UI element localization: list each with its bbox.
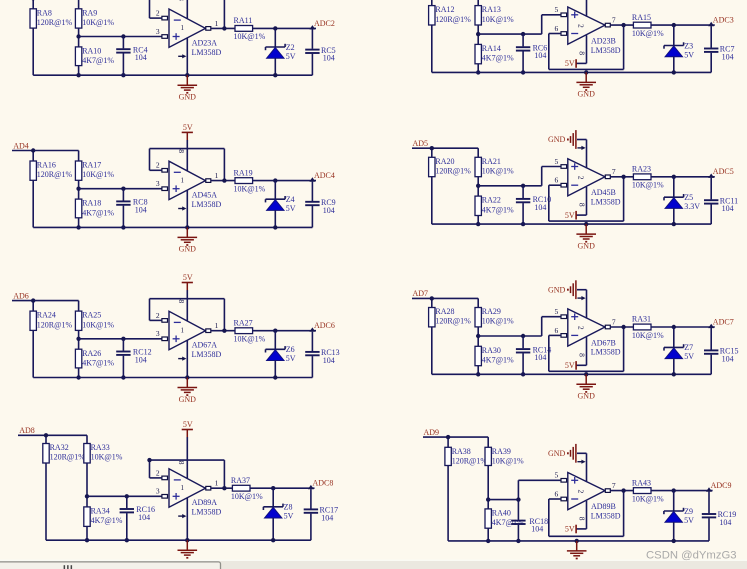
svg-text:5: 5: [555, 471, 559, 480]
wire feedback loop: [549, 177, 624, 221]
capacitor RC15 104: [704, 328, 738, 374]
svg-text:10K@1%: 10K@1%: [234, 32, 266, 41]
ground: [178, 378, 198, 404]
pin 3: [156, 487, 168, 498]
wire feedback loop: [150, 149, 225, 181]
svg-text:1: 1: [181, 327, 185, 335]
wire: [76, 218, 80, 230]
capacitor RC7 104: [704, 26, 734, 72]
svg-text:10K@1%: 10K@1%: [82, 170, 114, 179]
svg-text:Z6: Z6: [286, 345, 295, 354]
watermark: [646, 549, 737, 561]
svg-text:10K@1%: 10K@1%: [234, 184, 266, 193]
resistor RA43 10K: [632, 478, 664, 503]
wire input net: [412, 146, 478, 157]
resistor RA18 4K7: [75, 199, 114, 218]
svg-text:RA21: RA21: [482, 157, 501, 166]
svg-text:5V: 5V: [565, 59, 575, 68]
svg-text:10K@1%: 10K@1%: [482, 15, 514, 24]
resistor RA16 120R: [30, 161, 73, 181]
svg-text:RA33: RA33: [91, 443, 110, 452]
svg-text:2: 2: [156, 311, 160, 320]
ground: [178, 540, 198, 558]
wire: [250, 486, 315, 490]
svg-text:RA8: RA8: [37, 8, 52, 17]
svg-text:104: 104: [722, 53, 734, 62]
svg-text:ADC9: ADC9: [711, 481, 732, 490]
pin 5: [555, 157, 567, 168]
wire gnd rail: [33, 226, 312, 228]
svg-text:7: 7: [612, 16, 616, 25]
svg-text:RA20: RA20: [435, 157, 454, 166]
svg-text:Z3: Z3: [684, 41, 693, 50]
capacitor RC8 104: [116, 189, 147, 230]
power 5V + pin 8: [565, 35, 587, 68]
pin 7 output: [605, 481, 616, 492]
pin 3: [156, 329, 168, 340]
svg-text:5V: 5V: [565, 211, 575, 220]
wire: [32, 180, 34, 227]
svg-text:GND: GND: [548, 285, 566, 294]
svg-text:Z2: Z2: [286, 43, 295, 52]
svg-text:10K@1%: 10K@1%: [632, 29, 664, 38]
pin 2: [156, 311, 168, 322]
wire output: [610, 488, 633, 492]
svg-text:5V: 5V: [183, 420, 193, 429]
ground: [576, 374, 596, 400]
pin 4 wire + hidden-pin arrow: [178, 498, 189, 543]
zener Z6: [266, 331, 296, 380]
wire divider node: [76, 330, 162, 349]
svg-text:104: 104: [534, 51, 546, 60]
wire output: [211, 178, 235, 182]
resistor RA33 10K: [84, 443, 123, 463]
wire: [447, 466, 449, 541]
svg-text:120R@1%: 120R@1%: [37, 18, 73, 27]
pin 2: [156, 9, 168, 20]
svg-text:5V: 5V: [286, 52, 296, 61]
svg-text:ADC4: ADC4: [314, 171, 335, 180]
resistor RA29 10K: [475, 307, 514, 327]
svg-text:5V: 5V: [684, 516, 694, 525]
svg-text:Z7: Z7: [684, 343, 693, 352]
pin 6: [555, 326, 567, 337]
svg-text:10K@1%: 10K@1%: [482, 167, 514, 176]
power 5V: [182, 420, 193, 438]
svg-text:RA38: RA38: [452, 447, 471, 456]
pin 2: [156, 161, 168, 172]
wire: [651, 488, 713, 492]
wire input net: [18, 433, 87, 443]
resistor RA26 4K7: [75, 349, 114, 368]
node AD4: [13, 141, 29, 150]
capacitor RC5 104: [305, 29, 335, 75]
ground (top): [548, 0, 587, 17]
svg-text:GND: GND: [578, 241, 596, 250]
resistor RA32 120R: [43, 443, 86, 463]
wire divider node: [476, 15, 562, 45]
wire: [32, 28, 34, 75]
wire pin 8 supply: [177, 437, 187, 478]
svg-text:RA14: RA14: [482, 44, 501, 53]
svg-text:8: 8: [578, 517, 587, 521]
wire: [651, 325, 715, 329]
svg-text:AD5: AD5: [413, 139, 429, 148]
svg-text:ADC8: ADC8: [313, 479, 334, 488]
svg-text:RA40: RA40: [492, 509, 511, 518]
svg-text:RA19: RA19: [234, 168, 253, 177]
wire gnd rail: [432, 373, 711, 375]
pin 7 output: [605, 317, 616, 328]
wire: [651, 23, 715, 27]
svg-text:5V: 5V: [284, 512, 294, 521]
pin 6: [555, 24, 567, 35]
wire output: [610, 23, 633, 27]
capacitor RC6 104: [516, 34, 547, 75]
op-amp AD45B LM358D: [568, 159, 621, 207]
resistor RA40 4K7: [485, 509, 524, 529]
pin 3: [156, 179, 168, 190]
svg-text:1: 1: [181, 176, 185, 184]
zener Z9: [664, 491, 694, 544]
svg-text:LM358D: LM358D: [591, 46, 621, 55]
resistor RA28 120R: [429, 307, 472, 327]
svg-text:RA34: RA34: [91, 507, 110, 516]
svg-text:4K7@1%: 4K7@1%: [82, 208, 114, 217]
ground (top): [548, 280, 587, 318]
resistor RA34 4K7: [84, 507, 123, 527]
svg-text:104: 104: [722, 354, 734, 363]
ground: [576, 224, 596, 250]
node ADC6: [309, 321, 334, 332]
power 5V + pin 8: [565, 337, 587, 370]
resistor RA8 120R: [30, 8, 73, 28]
svg-text:5: 5: [555, 5, 559, 14]
svg-text:RA29: RA29: [482, 307, 501, 316]
wire: [76, 66, 80, 78]
ground: [178, 75, 198, 101]
svg-text:LM358D: LM358D: [192, 200, 222, 209]
wire output: [610, 175, 633, 179]
svg-text:Z5: Z5: [684, 193, 693, 202]
capacitor RC12 104: [116, 339, 151, 380]
resistor RA31 10K: [632, 315, 664, 340]
pin 4 wire + hidden-pin arrow: [178, 190, 189, 229]
zener Z4: [266, 181, 296, 230]
pin 6: [555, 176, 567, 187]
svg-text:1: 1: [215, 479, 219, 488]
svg-text:RA37: RA37: [231, 476, 250, 485]
svg-text:10K@1%: 10K@1%: [632, 331, 664, 340]
zener Z8: [263, 488, 293, 542]
pin 4 wire + hidden-pin arrow: [178, 340, 189, 379]
wire divider node: [486, 466, 562, 509]
resistor RA24 120R: [30, 311, 73, 331]
node ADC9: [706, 481, 731, 492]
wire gnd rail: [432, 71, 711, 73]
op-amp AD67A LM358D: [169, 311, 222, 359]
svg-text:2: 2: [576, 176, 585, 180]
svg-text:Z8: Z8: [284, 503, 293, 512]
svg-text:104: 104: [135, 205, 147, 214]
wire feedback loop: [150, 299, 225, 331]
node AD6: [13, 291, 29, 300]
node ADC8: [308, 479, 333, 490]
svg-text:AD23B: AD23B: [591, 37, 616, 46]
power 5V: [182, 123, 193, 141]
svg-text:LM358D: LM358D: [192, 48, 222, 57]
resistor RA9 10K: [75, 8, 114, 28]
capacitor RC11 104: [704, 178, 738, 224]
svg-text:104: 104: [135, 356, 147, 365]
wire feedback loop: [549, 491, 624, 537]
svg-text:8: 8: [177, 149, 186, 153]
svg-text:AD67A: AD67A: [192, 341, 218, 350]
zener Z2: [266, 28, 296, 77]
resistor RA22 4K7: [475, 196, 514, 216]
svg-text:104: 104: [323, 356, 335, 365]
resistor RA37 10K: [231, 476, 263, 501]
capacitor RC17 104: [304, 489, 338, 540]
resistor RA13 10K: [475, 5, 514, 25]
svg-text:3: 3: [156, 27, 160, 36]
svg-text:RA27: RA27: [234, 318, 253, 327]
ground: [567, 541, 587, 559]
svg-text:2: 2: [156, 161, 160, 170]
svg-text:GND: GND: [179, 395, 197, 404]
node AD5: [413, 139, 429, 148]
resistor RA38 120R: [445, 447, 488, 466]
svg-text:RA12: RA12: [435, 5, 454, 14]
pin 5: [555, 471, 567, 482]
wire: [476, 216, 480, 227]
svg-text:104: 104: [138, 513, 150, 522]
svg-text:AD8: AD8: [19, 426, 35, 435]
wire: [431, 327, 433, 374]
svg-text:1: 1: [215, 19, 219, 28]
svg-text:10K@1%: 10K@1%: [492, 457, 524, 466]
wire input net: [423, 435, 488, 447]
svg-text:10K@1%: 10K@1%: [82, 18, 114, 27]
wire gnd stem: [584, 70, 588, 74]
svg-text:120R@1%: 120R@1%: [452, 457, 488, 466]
resistor RA20 120R: [429, 157, 472, 177]
resistor RA39 10K: [485, 447, 524, 466]
wire output: [211, 329, 235, 333]
svg-text:RA10: RA10: [82, 47, 101, 56]
svg-text:5V: 5V: [286, 204, 296, 213]
svg-text:AD7: AD7: [413, 289, 429, 298]
node ADC5: [708, 167, 733, 178]
pin 6: [555, 489, 567, 500]
node AD9: [424, 428, 440, 437]
svg-text:7: 7: [612, 317, 616, 326]
svg-text:RA16: RA16: [37, 161, 56, 170]
wire gnd stem: [575, 539, 579, 543]
svg-text:120R@1%: 120R@1%: [435, 167, 471, 176]
zener Z3: [664, 25, 694, 75]
svg-text:3: 3: [156, 329, 160, 338]
pin 5: [555, 5, 567, 16]
svg-text:RA32: RA32: [50, 443, 69, 452]
power 5V: [182, 273, 193, 291]
svg-text:ADC6: ADC6: [314, 321, 335, 330]
svg-text:6: 6: [555, 24, 559, 33]
svg-text:AD23A: AD23A: [192, 38, 218, 47]
svg-text:2: 2: [576, 24, 585, 28]
pin 3: [156, 27, 168, 38]
svg-text:CSDN @dYmzG3: CSDN @dYmzG3: [646, 549, 737, 561]
wire divider node: [476, 317, 562, 347]
svg-text:1: 1: [215, 321, 219, 330]
svg-text:5: 5: [555, 307, 559, 316]
svg-text:GND: GND: [179, 93, 197, 102]
zener Z5: [664, 177, 700, 227]
resistor RA12 120R: [429, 5, 472, 25]
wire input net: [12, 298, 79, 311]
pin 1 output: [206, 321, 219, 332]
svg-text:120R@1%: 120R@1%: [37, 170, 73, 179]
svg-text:LM358D: LM358D: [192, 350, 222, 359]
node AD7: [413, 289, 429, 298]
svg-text:10K@1%: 10K@1%: [482, 317, 514, 326]
wire input net: [12, 0, 79, 9]
svg-text:3: 3: [156, 487, 160, 496]
ground (top): [548, 130, 587, 168]
wire: [32, 330, 34, 377]
wire: [76, 368, 80, 380]
wire gnd rail: [448, 540, 709, 542]
svg-text:GND: GND: [578, 90, 596, 99]
power 5V + pin 8: [565, 187, 587, 220]
pin 1 output: [206, 171, 219, 182]
op-amp AD89B LM358D: [568, 473, 621, 521]
svg-text:RA13: RA13: [482, 5, 501, 14]
wire feedback loop: [147, 458, 224, 488]
svg-text:5: 5: [555, 157, 559, 166]
wire divider node: [76, 28, 162, 47]
svg-text:5V: 5V: [183, 123, 193, 132]
svg-text:LM358D: LM358D: [192, 508, 222, 517]
capacitor RC10 104: [516, 186, 551, 227]
wire input net: [412, 296, 478, 307]
wire gnd rail: [432, 223, 711, 225]
svg-text:RA31: RA31: [632, 315, 651, 324]
op-amp AD89A LM358D: [169, 469, 222, 517]
pin 7 output: [605, 16, 616, 27]
svg-text:7: 7: [612, 481, 616, 490]
capacitor RC4 104: [116, 37, 147, 78]
node ADC4: [309, 171, 334, 182]
wire gnd rail: [46, 539, 311, 541]
svg-text:104: 104: [323, 54, 335, 63]
svg-text:AD6: AD6: [13, 291, 29, 300]
wire output: [211, 486, 233, 490]
resistor RA27 10K: [234, 318, 266, 343]
svg-text:104: 104: [534, 203, 546, 212]
wire gnd rail: [33, 377, 312, 379]
svg-text:RA18: RA18: [82, 199, 101, 208]
wire divider node: [76, 180, 162, 199]
op-amp AD67B LM358D: [568, 309, 621, 357]
svg-text:104: 104: [534, 353, 546, 362]
svg-text:ADC3: ADC3: [713, 16, 734, 25]
svg-text:10K@1%: 10K@1%: [82, 320, 114, 329]
ground: [178, 227, 198, 253]
resistor RA14 4K7: [475, 44, 514, 64]
capacitor RC14 104: [516, 336, 551, 376]
svg-text:5V: 5V: [565, 361, 575, 370]
pin 1 output: [206, 19, 219, 30]
svg-text:4K7@1%: 4K7@1%: [482, 54, 514, 63]
svg-text:4K7@1%: 4K7@1%: [82, 56, 114, 65]
svg-text:10K@1%: 10K@1%: [632, 181, 664, 190]
svg-text:1: 1: [181, 24, 185, 32]
svg-text:120R@1%: 120R@1%: [435, 15, 471, 24]
wire pin 8 supply: [177, 290, 187, 321]
svg-text:6: 6: [555, 489, 559, 498]
svg-text:RA23: RA23: [632, 165, 651, 174]
svg-text:10K@1%: 10K@1%: [231, 492, 263, 501]
svg-text:ADC5: ADC5: [713, 167, 734, 176]
svg-text:RA17: RA17: [82, 161, 101, 170]
svg-text:4K7@1%: 4K7@1%: [82, 358, 114, 367]
svg-text:GND: GND: [179, 245, 197, 254]
svg-text:8: 8: [578, 203, 587, 207]
svg-text:4K7@1%: 4K7@1%: [482, 205, 514, 214]
svg-text:104: 104: [135, 53, 147, 62]
svg-text:120R@1%: 120R@1%: [37, 320, 73, 329]
svg-text:8: 8: [177, 299, 186, 303]
svg-text:RA26: RA26: [82, 349, 101, 358]
power 5V + pin 8: [565, 501, 587, 534]
svg-text:ADC2: ADC2: [314, 19, 335, 28]
svg-text:Z9: Z9: [684, 507, 693, 516]
capacitor RC19 104: [702, 492, 736, 541]
svg-text:AD67B: AD67B: [591, 338, 616, 347]
wire: [431, 25, 433, 72]
svg-text:GND: GND: [548, 449, 566, 458]
node ADC7: [708, 317, 733, 328]
svg-text:6: 6: [555, 326, 559, 335]
svg-text:104: 104: [719, 518, 731, 527]
op-amp AD45A LM358D: [169, 161, 222, 209]
svg-text:2: 2: [576, 490, 585, 494]
wire gnd stem: [584, 222, 588, 226]
wire pin 8 supply: [177, 140, 187, 171]
pin 7 output: [605, 167, 616, 178]
svg-text:6: 6: [555, 176, 559, 185]
svg-text:104: 104: [323, 206, 335, 215]
svg-text:GND: GND: [578, 392, 596, 401]
svg-text:2: 2: [156, 468, 160, 477]
svg-text:7: 7: [612, 167, 616, 176]
wire pin 8 supply: [177, 0, 187, 18]
svg-text:5V: 5V: [684, 50, 694, 59]
capacitor RC16 104: [120, 496, 155, 542]
svg-text:8: 8: [578, 51, 587, 55]
svg-text:104: 104: [321, 513, 333, 522]
svg-text:AD45B: AD45B: [591, 188, 616, 197]
wire: [85, 526, 89, 542]
node ADC2: [309, 19, 334, 30]
svg-text:LM358D: LM358D: [591, 348, 621, 357]
wire: [253, 329, 316, 333]
svg-text:4K7@1%: 4K7@1%: [482, 356, 514, 365]
svg-text:RA28: RA28: [435, 307, 454, 316]
wire: [486, 528, 490, 543]
svg-text:RA24: RA24: [37, 311, 56, 320]
